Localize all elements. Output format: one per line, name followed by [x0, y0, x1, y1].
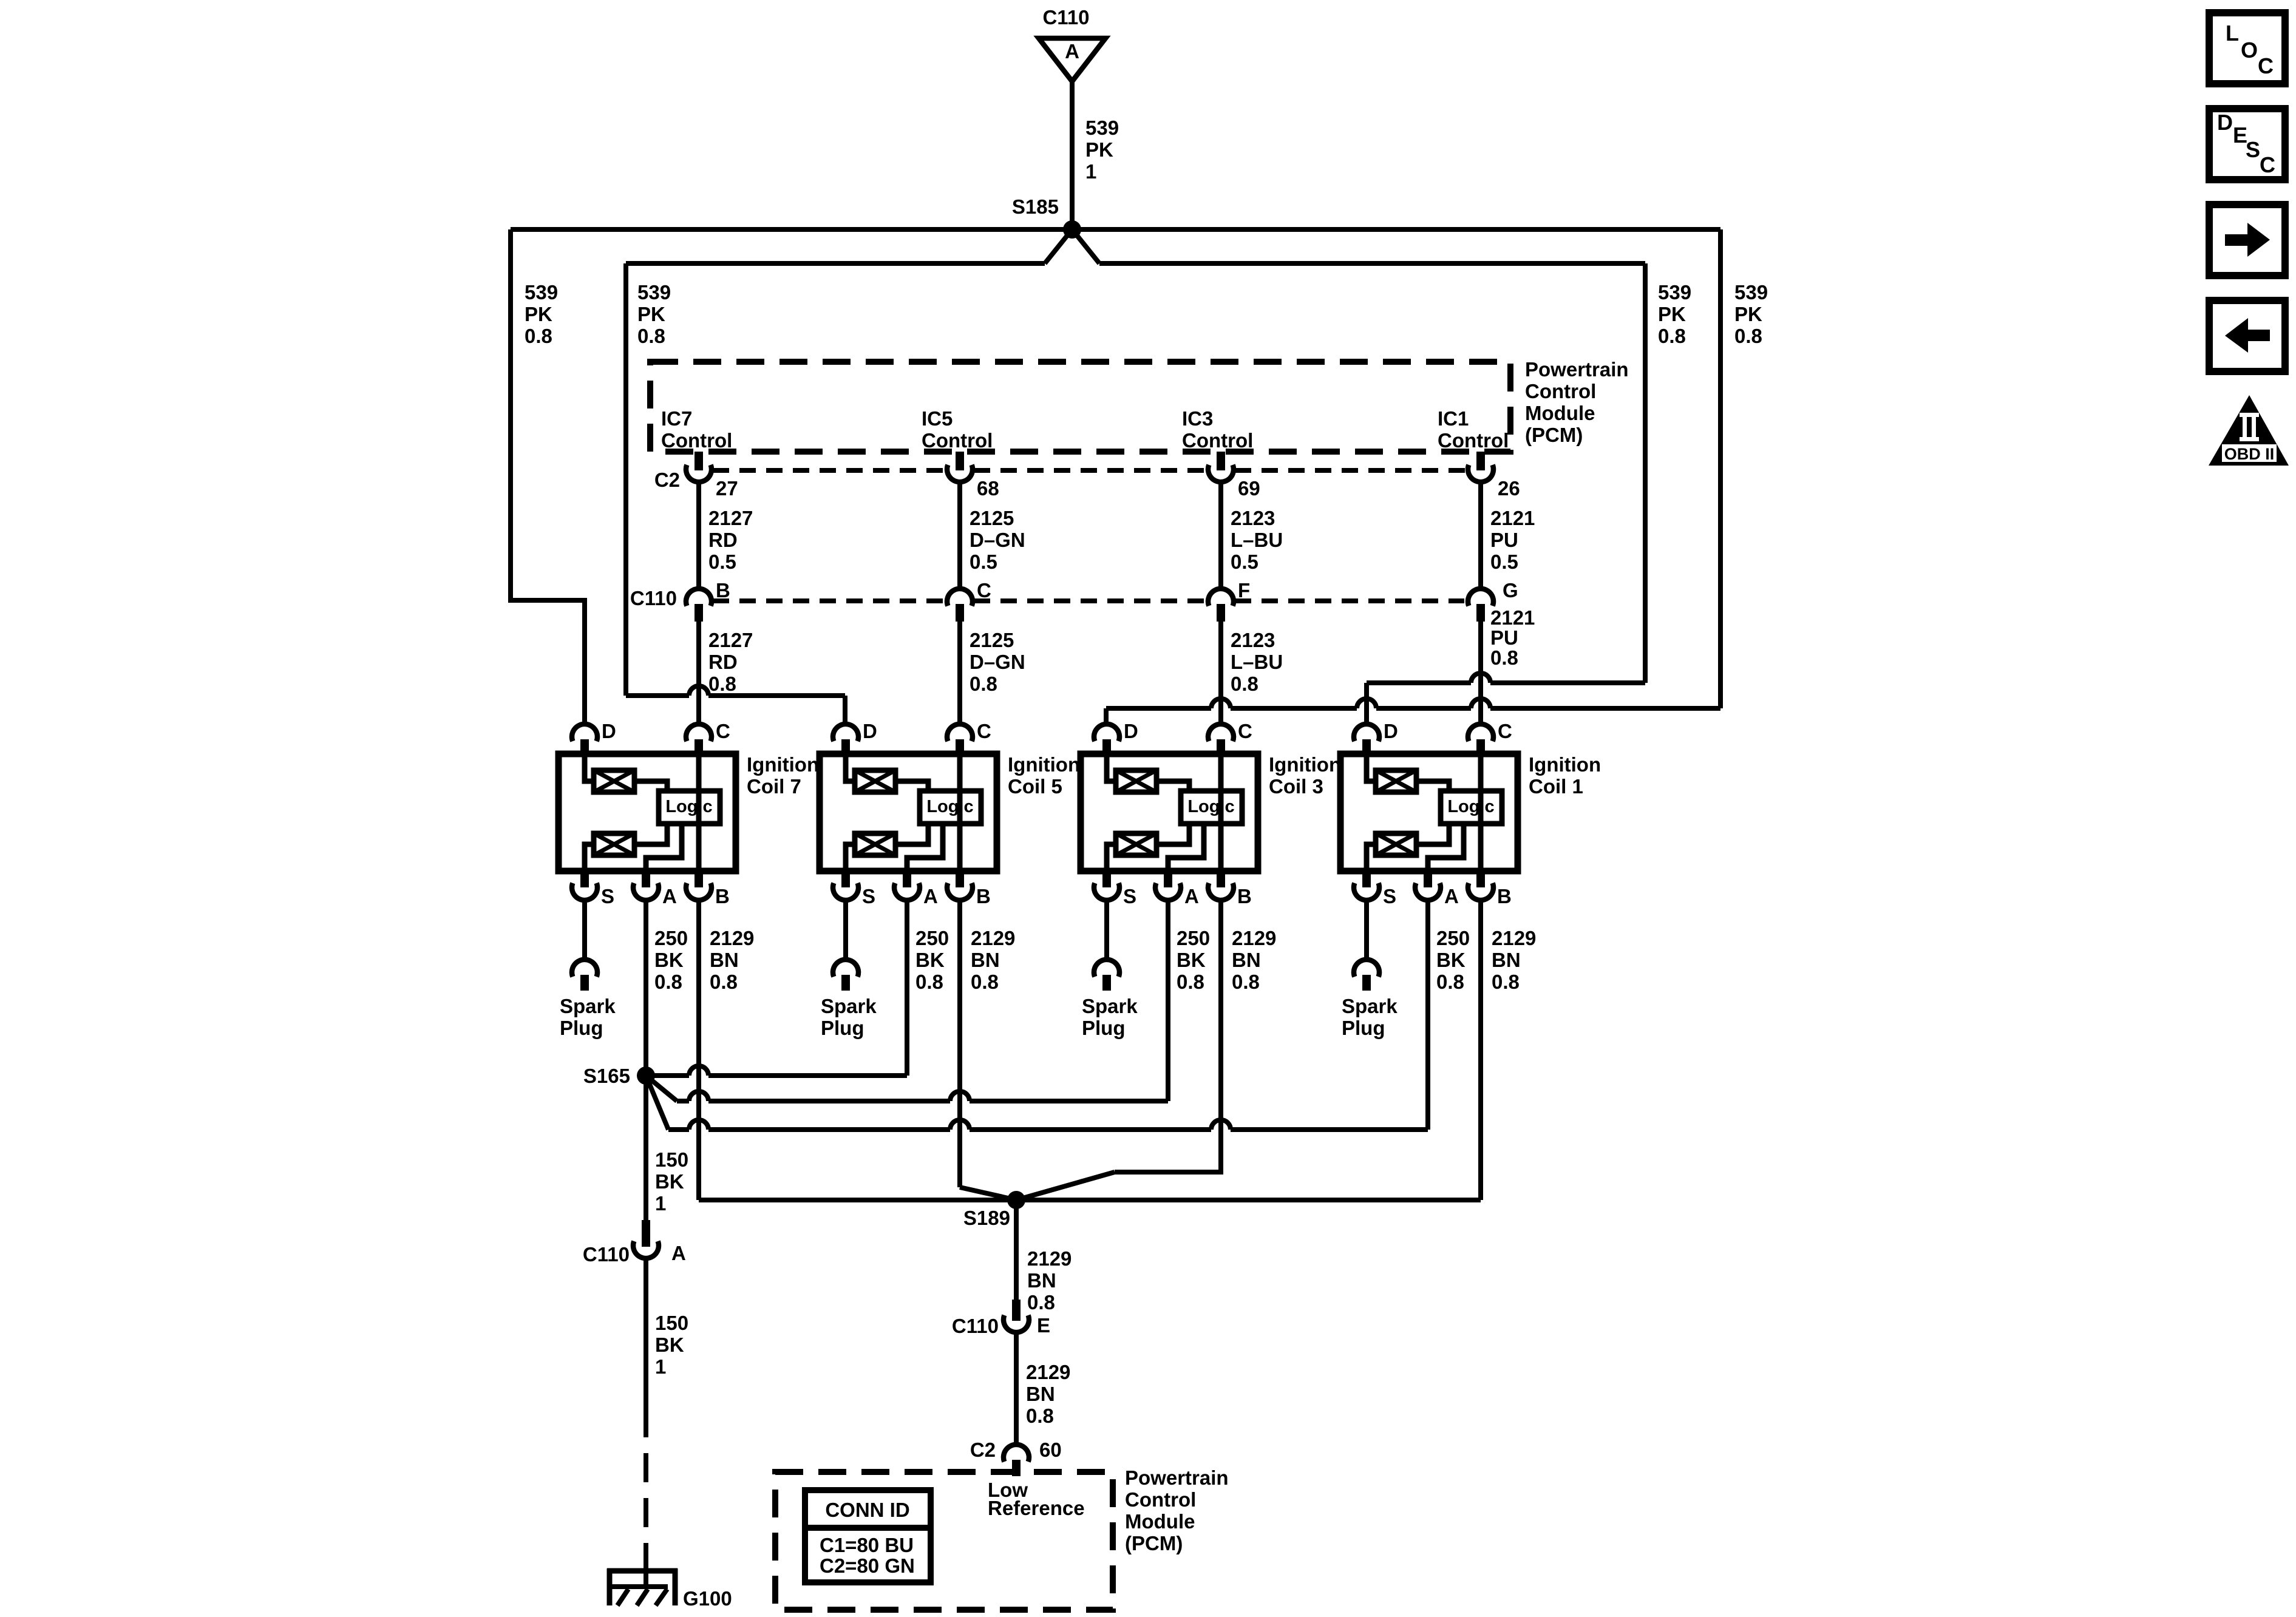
- svg-text:1: 1: [1085, 160, 1096, 183]
- wire 150 BK 1 (S165 down to C110 A): [644, 1084, 648, 1220]
- wire 539 PK 0.8 inner bus right segment: [1099, 261, 1645, 266]
- svg-text:0.8: 0.8: [971, 971, 999, 993]
- icon left-arrow box: [2209, 300, 2285, 371]
- coil 1 internal wire logic to pin A: [1428, 824, 1464, 871]
- coil 5 secondary winding: [855, 833, 895, 855]
- coil 7 internal wire D to primary winding: [585, 754, 594, 781]
- svg-text:C2: C2: [970, 1439, 996, 1461]
- coil 1 internal wire D to primary winding: [1367, 754, 1376, 781]
- wire ground bus line 2 (S165 to coil 3 A) with hops: [677, 1099, 689, 1103]
- svg-text:0.8: 0.8: [1490, 646, 1518, 669]
- svg-text:S189: S189: [963, 1207, 1010, 1229]
- svg-text:S: S: [1383, 885, 1396, 907]
- coil 5 internal wire winding to pin S: [846, 844, 855, 871]
- svg-text:0.8: 0.8: [1492, 971, 1520, 993]
- wire 2121 PU 0.8 (C110 G to coil): [1478, 622, 1483, 724]
- wire 2121 PU 0.5 (C2 26 to C110): [1478, 483, 1483, 589]
- svg-text:L–BU: L–BU: [1231, 529, 1283, 551]
- coil 1 primary winding: [1376, 770, 1416, 792]
- svg-text:2123: 2123: [1231, 507, 1275, 529]
- connector C2 cavity 27 half-circle: [686, 465, 712, 482]
- wire 2129 BN 0.8 coil 3 B down: [1115, 902, 1221, 1172]
- wire 2129 BN 0.8 coil 7 B down: [696, 902, 701, 1200]
- svg-text:L–BU: L–BU: [1231, 651, 1283, 673]
- svg-text:0.8: 0.8: [637, 325, 665, 347]
- svg-text:Control: Control: [1182, 429, 1253, 452]
- wire 2125 D&#8211;GN 0.5 (C2 68 to C110): [957, 483, 962, 589]
- wire S185 tent diagonal right: [1072, 229, 1099, 263]
- PCM pin 69 stub: [1217, 452, 1225, 470]
- ignition coil 1 pin D connector: [1354, 724, 1379, 741]
- connector C2 cavity 60: [1004, 1445, 1029, 1462]
- svg-text:0.8: 0.8: [525, 325, 552, 347]
- svg-text:BN: BN: [710, 949, 739, 971]
- svg-text:Plug: Plug: [1082, 1017, 1126, 1039]
- svg-text:Reference: Reference: [988, 1497, 1085, 1519]
- svg-text:O: O: [2241, 38, 2258, 63]
- svg-text:BK: BK: [655, 1170, 684, 1193]
- wire 539 PK 0.8 right outer (S185 to coil 3 pin D): vertical: [1718, 229, 1723, 708]
- svg-text:2125: 2125: [970, 507, 1014, 529]
- svg-text:A: A: [671, 1242, 686, 1264]
- coil 7 logic box: [659, 791, 720, 824]
- coil 7 secondary winding: [594, 833, 634, 855]
- coil 5 logic box: [920, 791, 981, 824]
- coil 1 secondary winding: [1376, 833, 1416, 855]
- ignition coil 7 pin C connector: [686, 724, 712, 741]
- svg-text:C: C: [1238, 720, 1252, 742]
- svg-text:G: G: [1503, 579, 1518, 602]
- wire 2129 BN 0.8 coil 1 B down: [1478, 902, 1483, 1200]
- svg-text:539: 539: [1734, 281, 1768, 303]
- svg-text:Powertrain: Powertrain: [1125, 1466, 1229, 1489]
- svg-text:Module: Module: [1125, 1510, 1195, 1533]
- svg-text:Coil 3: Coil 3: [1269, 775, 1323, 798]
- svg-text:C2=80 GN: C2=80 GN: [820, 1554, 915, 1577]
- coil 5 internal wire logic to pin A: [907, 824, 943, 871]
- svg-text:250: 250: [1177, 927, 1210, 949]
- ignition coil 1 pin C connector: [1468, 724, 1493, 741]
- coil 3 internal wire C through to B: [1218, 754, 1224, 871]
- ignition coil 7 pin D connector: [572, 724, 597, 741]
- svg-text:RD: RD: [708, 651, 738, 673]
- connector C110 triangle symbol (cavity A): [1039, 38, 1106, 81]
- coil 7 pin A connector: [642, 871, 650, 887]
- svg-text:Control: Control: [1438, 429, 1509, 452]
- svg-text:D: D: [863, 720, 877, 742]
- svg-text:Logic: Logic: [1187, 797, 1234, 816]
- svg-text:0.8: 0.8: [708, 673, 736, 695]
- svg-text:PK: PK: [1658, 303, 1686, 325]
- connector C2 cavity 26 half-circle: [1468, 465, 1493, 482]
- svg-text:2129: 2129: [1232, 927, 1276, 949]
- svg-text:Control: Control: [1125, 1488, 1196, 1511]
- coil 7 pin S connector: [580, 871, 589, 887]
- wire ground bus line 3 (S165 to coil 1 A) with hops: [668, 1127, 689, 1132]
- coil 1 pin B connector: [1476, 871, 1485, 887]
- svg-text:150: 150: [655, 1148, 688, 1171]
- wire 2125 D&#8211;GN 0.8 (C110 C to coil): [957, 622, 962, 724]
- CONN ID table box: [805, 1490, 931, 1582]
- wire S185 tent diagonal left: [1045, 229, 1072, 263]
- svg-text:B: B: [715, 885, 730, 907]
- svg-text:BN: BN: [1232, 949, 1261, 971]
- svg-text:C110: C110: [630, 587, 677, 609]
- svg-text:BK: BK: [654, 949, 684, 971]
- PCM pin 68 stub: [956, 452, 964, 470]
- coil 5 internal wire D to primary winding: [846, 754, 855, 781]
- coil 3 secondary winding: [1116, 833, 1156, 855]
- spark plug 5 connector: [833, 960, 858, 977]
- coil 3 internal wire logic to pin A: [1168, 824, 1204, 871]
- PCM pin 27 stub: [695, 452, 703, 470]
- ignition coil 5 pin D connector: [833, 724, 858, 741]
- svg-text:A: A: [1444, 885, 1459, 907]
- wire 2127 RD 0.5 (C2 27 to C110): [696, 483, 701, 589]
- svg-text:BK: BK: [1436, 949, 1466, 971]
- svg-text:RD: RD: [708, 529, 738, 551]
- connector C110 cavity A: [642, 1220, 650, 1247]
- svg-text:250: 250: [1436, 927, 1470, 949]
- coil 1 internal wire C through to B: [1478, 754, 1484, 871]
- svg-text:A: A: [1184, 885, 1199, 907]
- svg-text:A: A: [1065, 40, 1079, 63]
- svg-text:2127: 2127: [708, 629, 753, 651]
- svg-text:CONN ID: CONN ID: [825, 1499, 909, 1521]
- svg-text:BK: BK: [915, 949, 945, 971]
- svg-text:B: B: [976, 885, 991, 907]
- coil 5 pin A connector: [903, 871, 911, 887]
- svg-text:B: B: [1237, 885, 1252, 907]
- svg-text:0.8: 0.8: [654, 971, 682, 993]
- svg-text:Coil 7: Coil 7: [747, 775, 801, 798]
- coil 5 pin S connector: [841, 871, 850, 887]
- coil 1 internal wire winding to logic: [1416, 781, 1449, 791]
- coil 1 logic box: [1441, 791, 1502, 824]
- connector C110 cavity B half-circle: [686, 589, 712, 606]
- svg-text:60: 60: [1039, 1439, 1062, 1461]
- svg-text:BN: BN: [971, 949, 1000, 971]
- svg-text:250: 250: [654, 927, 688, 949]
- svg-text:Plug: Plug: [821, 1017, 864, 1039]
- svg-text:539: 539: [637, 281, 671, 303]
- svg-text:A: A: [662, 885, 677, 907]
- svg-text:IC1: IC1: [1438, 407, 1469, 430]
- icon OBD II triangle: [2209, 395, 2289, 466]
- icon LOC box: [2209, 13, 2285, 84]
- ignition coil 3 pin D connector: [1094, 724, 1119, 741]
- splice S185 junction dot: [1063, 220, 1081, 239]
- svg-text:D: D: [602, 720, 616, 742]
- svg-text:2129: 2129: [710, 927, 754, 949]
- svg-text:Control: Control: [922, 429, 993, 452]
- ignition coil 5 box: [820, 754, 997, 871]
- wire 2129 BN 0.8 (S189 to C110 E): [1014, 1209, 1019, 1300]
- ignition coil 7 box: [559, 754, 736, 871]
- C110 cavity C stub: [956, 604, 964, 622]
- svg-text:E: E: [1037, 1314, 1050, 1337]
- coil 7 internal wire logic to secondary winding: [634, 824, 667, 844]
- svg-text:68: 68: [977, 477, 999, 500]
- svg-text:Module: Module: [1525, 402, 1595, 424]
- svg-text:0.8: 0.8: [1231, 673, 1258, 695]
- connector C110 cavity F half-circle: [1208, 589, 1234, 606]
- svg-text:C: C: [977, 720, 991, 742]
- svg-text:Logic: Logic: [665, 797, 712, 816]
- wire coil 5 S to spark plug: [843, 902, 848, 959]
- wire 150 BK 1 dashed segment to ground: [644, 1408, 648, 1575]
- svg-text:0.8: 0.8: [1436, 971, 1464, 993]
- ignition coil 1 box: [1340, 754, 1518, 871]
- svg-text:PK: PK: [525, 303, 552, 325]
- svg-text:A: A: [923, 885, 938, 907]
- svg-text:B: B: [716, 579, 730, 602]
- svg-text:Powertrain: Powertrain: [1525, 358, 1629, 381]
- wire 539 PK 0.8 left outer (S185 to coil 7 pin D): [511, 229, 585, 724]
- connector C2 dashed line: [713, 468, 947, 473]
- svg-text:Control: Control: [661, 429, 732, 452]
- coil 3 internal wire logic to secondary winding: [1156, 824, 1189, 844]
- coil 1 pin A connector: [1424, 871, 1432, 887]
- wire coil 7 S to spark plug: [582, 902, 587, 959]
- coil 3 internal wire winding to pin S: [1107, 844, 1116, 871]
- svg-text:0.8: 0.8: [710, 971, 738, 993]
- wire 2129 BN 0.8 coil 5 B down: [957, 902, 962, 1187]
- svg-text:27: 27: [716, 477, 738, 500]
- svg-text:Spark: Spark: [1082, 995, 1138, 1017]
- svg-text:C: C: [977, 579, 991, 602]
- svg-text:26: 26: [1498, 477, 1520, 500]
- svg-text:0.5: 0.5: [1490, 551, 1518, 573]
- wire 250 BK 0.8 coil 7 A to splice S165: [644, 902, 648, 1076]
- svg-text:S165: S165: [583, 1065, 630, 1087]
- svg-text:0.8: 0.8: [1658, 325, 1686, 347]
- wire 539 PK 0.8 right inner (to coil 1 pin D): vertical: [1643, 263, 1648, 683]
- svg-text:G100: G100: [683, 1587, 732, 1610]
- svg-text:BN: BN: [1492, 949, 1521, 971]
- icon DESC box: [2209, 109, 2285, 180]
- ground G100 symbol: [607, 1568, 678, 1574]
- connector C2 cavity 69 half-circle: [1208, 465, 1234, 482]
- coil 1 internal wire winding to pin S: [1367, 844, 1376, 871]
- spark plug 3 connector: [1094, 960, 1119, 977]
- svg-text:D: D: [1124, 720, 1138, 742]
- PCM module box bottom (dashed): [775, 1472, 1113, 1610]
- svg-text:PU: PU: [1490, 626, 1518, 649]
- coil 3 primary winding: [1116, 770, 1156, 792]
- wire 250 BK 0.8 coil 5 A drop: [905, 902, 909, 1076]
- svg-text:2121: 2121: [1490, 606, 1535, 629]
- wire 2129 BN 0.8 (C110 E to C2 60): [1014, 1334, 1019, 1444]
- svg-text:(PCM): (PCM): [1525, 424, 1583, 446]
- svg-text:C: C: [2260, 152, 2275, 177]
- ignition coil 3 pin C connector: [1208, 724, 1234, 741]
- svg-text:F: F: [1238, 579, 1250, 602]
- wire 539 PK 0.8 right outer: drop to coil 3 pin D: [1104, 708, 1109, 724]
- PCM module box (dashed): [650, 362, 1510, 452]
- svg-text:OBD II: OBD II: [2224, 445, 2275, 463]
- wire 539 PK 0.8 left inner: horizontal jog with hop over wire 2127: [626, 693, 689, 698]
- wire 539 PK 0.8 right outer: horizontal jog with hops: [1106, 706, 1211, 711]
- svg-text:IC7: IC7: [661, 407, 692, 430]
- icon right-arrow box: [2209, 205, 2285, 276]
- svg-text:PK: PK: [637, 303, 665, 325]
- svg-text:0.8: 0.8: [1734, 325, 1762, 347]
- svg-text:Spark: Spark: [821, 995, 877, 1017]
- wire 539 PK 0.8 inner bus left segment: [626, 261, 1045, 266]
- svg-text:C110: C110: [583, 1243, 630, 1266]
- svg-text:C: C: [1498, 720, 1512, 742]
- splice S165 junction dot: [637, 1066, 655, 1085]
- svg-text:PK: PK: [1734, 303, 1762, 325]
- svg-text:IC3: IC3: [1182, 407, 1213, 430]
- ignition coil 3 box: [1081, 754, 1258, 871]
- coil 7 internal wire logic to pin A: [646, 824, 682, 871]
- coil 7 internal wire winding to logic: [634, 781, 667, 791]
- ignition coil 5 pin C connector: [947, 724, 973, 741]
- coil 3 pin B connector: [1217, 871, 1225, 887]
- connector C110 cavity C half-circle: [947, 589, 973, 606]
- svg-text:Plug: Plug: [1342, 1017, 1385, 1039]
- svg-text:Ignition: Ignition: [747, 753, 819, 776]
- svg-text:0.5: 0.5: [1231, 551, 1258, 573]
- svg-text:Coil 5: Coil 5: [1008, 775, 1062, 798]
- coil 3 logic box: [1181, 791, 1242, 824]
- svg-text:L: L: [2226, 21, 2239, 46]
- svg-text:BK: BK: [655, 1334, 684, 1356]
- wire 250 BK 0.8 coil 3 A drop: [1166, 902, 1170, 1101]
- coil 5 pin B connector: [956, 871, 964, 887]
- coil 3 pin A connector: [1164, 871, 1172, 887]
- svg-text:D: D: [1384, 720, 1398, 742]
- svg-text:IC5: IC5: [922, 407, 953, 430]
- svg-text:2129: 2129: [1027, 1247, 1072, 1270]
- connector C2 cavity 68 half-circle: [947, 465, 973, 482]
- svg-text:BN: BN: [1026, 1383, 1055, 1405]
- PCM pin 26 stub: [1476, 452, 1485, 470]
- wire 539 PK 0.8 right inner: drop to coil 1 pin D: [1364, 683, 1369, 724]
- svg-text:150: 150: [655, 1312, 688, 1334]
- wire 539 PK 0.8 top bus (S185 horizontal): [511, 227, 1720, 232]
- svg-text:PU: PU: [1490, 529, 1518, 551]
- wire ground bus line 1 (S165 to coil 5 A) with hop: [646, 1073, 689, 1078]
- svg-text:D: D: [2217, 110, 2233, 135]
- coil 5 primary winding: [855, 770, 895, 792]
- svg-text:1: 1: [655, 1192, 666, 1215]
- svg-text:Coil 1: Coil 1: [1529, 775, 1583, 798]
- svg-text:Ignition: Ignition: [1008, 753, 1080, 776]
- svg-text:PK: PK: [1085, 138, 1113, 161]
- svg-text:0.8: 0.8: [1027, 1291, 1055, 1314]
- spark plug 7 connector: [572, 960, 597, 977]
- svg-text:250: 250: [915, 927, 949, 949]
- wire coil 1 S to spark plug: [1364, 902, 1369, 959]
- svg-text:0.8: 0.8: [1177, 971, 1204, 993]
- svg-text:Spark: Spark: [1342, 995, 1398, 1017]
- svg-text:Ignition: Ignition: [1269, 753, 1341, 776]
- svg-text:S: S: [2246, 137, 2260, 162]
- wire S165 diagonal to line 2: [646, 1076, 677, 1101]
- svg-text:B: B: [1497, 885, 1512, 907]
- svg-text:C: C: [2258, 53, 2274, 78]
- svg-text:BN: BN: [1027, 1269, 1056, 1292]
- svg-text:Logic: Logic: [1447, 797, 1494, 816]
- coil 5 internal wire logic to secondary winding: [895, 824, 928, 844]
- svg-text:Logic: Logic: [926, 797, 973, 816]
- svg-text:Control: Control: [1525, 380, 1596, 402]
- wire 2127 RD 0.8 (C110 B to coil): [696, 622, 701, 724]
- splice S189 junction dot: [1007, 1191, 1025, 1209]
- svg-text:2127: 2127: [708, 507, 753, 529]
- wire 2123 L&#8211;BU 0.8 (C110 F to coil): [1218, 622, 1223, 724]
- coil 3 pin S connector: [1102, 871, 1111, 887]
- spark plug 1 connector: [1354, 960, 1379, 977]
- wire low reference bus line 4 (B7 to B1 through S189): [699, 1198, 1481, 1202]
- connector C110 cavity E: [1012, 1300, 1021, 1321]
- coil 7 pin B connector: [695, 871, 703, 887]
- svg-text:BK: BK: [1177, 949, 1206, 971]
- svg-text:0.5: 0.5: [970, 551, 997, 573]
- svg-text:1: 1: [655, 1355, 666, 1378]
- svg-text:(PCM): (PCM): [1125, 1532, 1183, 1554]
- C110 cavity F stub: [1217, 604, 1225, 622]
- svg-text:69: 69: [1238, 477, 1260, 500]
- svg-text:S185: S185: [1012, 195, 1059, 218]
- svg-text:D–GN: D–GN: [970, 529, 1025, 551]
- svg-text:Spark: Spark: [560, 995, 616, 1017]
- svg-text:0.8: 0.8: [1026, 1405, 1054, 1427]
- coil 1 pin S connector: [1362, 871, 1371, 887]
- wire 539 PK 0.8 left inner (to coil 5 pin D): vertical: [623, 263, 628, 696]
- coil 3 internal wire D to primary winding: [1107, 754, 1116, 781]
- svg-text:2123: 2123: [1231, 629, 1275, 651]
- wire 539 PK 1 (C110 A to S185): [1070, 81, 1075, 229]
- wire 539 PK 0.8 left inner: drop to coil 5 pin D: [843, 696, 847, 724]
- svg-text:0.8: 0.8: [1232, 971, 1260, 993]
- svg-text:2129: 2129: [1492, 927, 1536, 949]
- coil 1 internal wire logic to secondary winding: [1416, 824, 1449, 844]
- wire S165 diagonal to line 3: [646, 1076, 668, 1130]
- coil 3 internal wire winding to logic: [1156, 781, 1189, 791]
- svg-text:2125: 2125: [970, 629, 1014, 651]
- svg-text:D–GN: D–GN: [970, 651, 1025, 673]
- svg-text:Plug: Plug: [560, 1017, 603, 1039]
- connector C110 cavity G half-circle: [1468, 589, 1493, 606]
- wire 2123 L&#8211;BU 0.5 (C2 69 to C110): [1218, 483, 1223, 589]
- coil 7 internal wire C through to B: [696, 754, 702, 871]
- wire coil 3 S to spark plug: [1104, 902, 1109, 959]
- wire 150 BK 1 (C110 A down): [644, 1260, 648, 1408]
- coil 7 internal wire winding to pin S: [585, 844, 594, 871]
- connector C110 dashed line: [713, 598, 947, 603]
- svg-text:0.5: 0.5: [708, 551, 736, 573]
- svg-text:Ignition: Ignition: [1529, 753, 1601, 776]
- svg-text:0.8: 0.8: [970, 673, 997, 695]
- svg-text:539: 539: [1658, 281, 1691, 303]
- svg-text:C110: C110: [1042, 6, 1089, 29]
- coil 5 internal wire C through to B: [957, 754, 963, 871]
- C110 cavity G stub: [1476, 604, 1485, 622]
- svg-text:539: 539: [1085, 117, 1119, 139]
- svg-text:2129: 2129: [971, 927, 1015, 949]
- wire 250 BK 0.8 coil 1 A drop: [1425, 902, 1430, 1130]
- coil 7 primary winding: [594, 770, 634, 792]
- svg-text:2121: 2121: [1490, 507, 1535, 529]
- svg-text:C2: C2: [654, 469, 680, 491]
- svg-text:C1=80 BU: C1=80 BU: [820, 1534, 914, 1556]
- svg-text:S: S: [601, 885, 614, 907]
- svg-text:S: S: [1123, 885, 1136, 907]
